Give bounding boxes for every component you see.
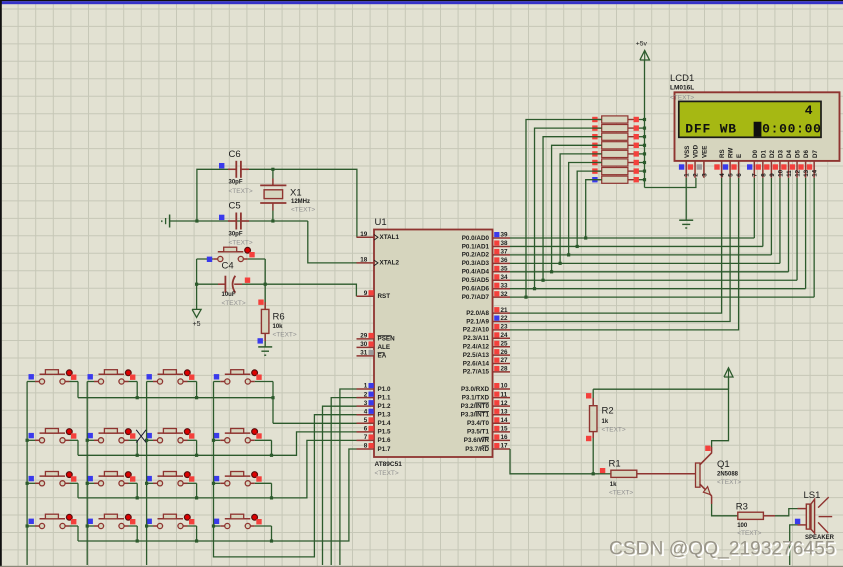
svg-text:<TEXT>: <TEXT>: [670, 95, 694, 102]
svg-text:D4: D4: [786, 150, 793, 158]
junction row wire 2 jog 3: [195, 454, 198, 457]
svg-text:17: 17: [501, 443, 509, 450]
svg-text:P1.3: P1.3: [378, 412, 391, 419]
pin 14 P3.4: [493, 422, 511, 424]
junction column 1 row 2: [26, 439, 29, 442]
capacitor C5: [228, 220, 236, 222]
state square pack 2 right: [634, 125, 639, 130]
op-amp U1 body (AT89C51 MCU): [374, 230, 493, 458]
svg-text:P2.5/A13: P2.5/A13: [463, 352, 490, 359]
push button keypad r2c2: [87, 439, 94, 441]
pin 4 P1.3: [357, 414, 375, 416]
svg-text:33: 33: [501, 282, 509, 289]
wire P1.1 column drop: [331, 398, 356, 565]
pin 7 P1.6: [357, 439, 375, 441]
wire LCD D3 drop: [779, 178, 781, 264]
wire keypad row 3 to P1.6: [78, 440, 357, 498]
svg-text:12: 12: [794, 169, 801, 176]
svg-text:9: 9: [769, 173, 776, 177]
svg-text:P2.0/A8: P2.0/A8: [466, 310, 489, 317]
wire keypad jog r4c1: [77, 526, 79, 541]
resistor pack element 2: [598, 127, 602, 129]
pin 17 P3.7: [493, 448, 511, 450]
ground symbol (below R6): [258, 346, 272, 348]
svg-text:C4: C4: [222, 261, 234, 272]
svg-text:37: 37: [501, 249, 509, 256]
svg-text:25: 25: [501, 340, 509, 347]
svg-text:4: 4: [805, 103, 814, 118]
wire P0.3 bus row: [510, 262, 780, 264]
svg-text:C6: C6: [229, 149, 241, 160]
push button keypad r2c1: [27, 439, 35, 441]
svg-text:30pF: 30pF: [229, 180, 243, 186]
LCD pin 3 VEE: [703, 161, 705, 178]
svg-text:P1.0: P1.0: [378, 386, 391, 393]
junction rail row 4: [643, 144, 646, 147]
svg-text:AT89C51: AT89C51: [375, 461, 403, 468]
resistor R2: [590, 406, 598, 432]
junction column 1 row 4: [26, 524, 29, 527]
svg-text:35: 35: [501, 266, 509, 273]
junction row wire 3 jog 4: [270, 496, 273, 499]
svg-text:12: 12: [501, 400, 509, 407]
resistor pack element 3: [598, 136, 602, 138]
svg-text:P3.5/T1: P3.5/T1: [467, 429, 490, 436]
svg-text:C5: C5: [229, 201, 241, 212]
svg-text:RST: RST: [378, 293, 391, 300]
svg-text:P3.3/INT1: P3.3/INT1: [461, 412, 490, 419]
state square pack 7 left: [592, 168, 597, 173]
LCD pin 14 D7: [813, 161, 815, 178]
wire P0.2 bus row: [510, 254, 771, 256]
svg-text:31: 31: [360, 350, 368, 357]
wire keypad jog r1c1: [77, 382, 79, 398]
state square pack 8 left: [592, 177, 597, 182]
svg-text:P3.4/T0: P3.4/T0: [467, 420, 490, 427]
wire keypad row 1 to P1.4: [78, 397, 273, 399]
wire +5v rail to LCD VDD: [645, 178, 696, 188]
svg-text:1k: 1k: [602, 419, 609, 425]
svg-text:P2.3/A11: P2.3/A11: [463, 335, 489, 342]
wire P2 to LCD E: [510, 178, 739, 330]
svg-text:26: 26: [501, 349, 509, 356]
svg-text:P0.5/AD5: P0.5/AD5: [462, 277, 490, 284]
state square R6 bottom: [258, 338, 263, 343]
junction +5/C4 left: [195, 283, 198, 286]
junction row wire 3 jog 3: [195, 496, 198, 499]
svg-text:EA: EA: [378, 353, 387, 360]
state square R2 bottom: [586, 436, 591, 441]
svg-text:14: 14: [812, 169, 819, 176]
svg-text:11: 11: [501, 391, 508, 398]
svg-text:9: 9: [364, 290, 368, 297]
wire X1 top pin: [272, 169, 274, 178]
push button keypad r4c2: [87, 525, 94, 527]
svg-text:3: 3: [701, 173, 708, 177]
svg-text:█0:00:00: █0:00:00: [754, 121, 822, 136]
junction P0.7 riser: [524, 296, 527, 299]
svg-text:P3.0/RXD: P3.0/RXD: [461, 386, 489, 393]
state square pack 5 left: [592, 151, 597, 156]
pin 13 P3.3: [493, 414, 511, 416]
wire keypad jog r2c3: [196, 440, 198, 455]
wire C5/ground net: [170, 220, 308, 222]
svg-text:30pF: 30pF: [229, 231, 243, 237]
wire P0.6 riser to resistor pack: [535, 128, 602, 289]
svg-text:39: 39: [501, 232, 509, 239]
svg-text:P2.6/A14: P2.6/A14: [463, 360, 490, 367]
svg-text:34: 34: [501, 274, 509, 281]
wire R6 to ground: [264, 341, 266, 347]
resistor pack element 8: [598, 179, 602, 181]
svg-text:38: 38: [501, 240, 509, 247]
svg-text:7: 7: [364, 434, 368, 441]
svg-text:P3.6/WR: P3.6/WR: [464, 437, 490, 444]
wire keypad row 2 to P1.5: [78, 432, 357, 455]
capacitor C4 (10uF): [197, 283, 218, 285]
svg-text:13: 13: [803, 169, 810, 176]
svg-text:1: 1: [684, 173, 691, 177]
junction column 4 row 3: [212, 482, 215, 485]
wire keypad jog r2c2: [136, 440, 138, 455]
junction rail row 8: [643, 178, 646, 181]
svg-text:P0.0/AD0: P0.0/AD0: [462, 235, 490, 242]
svg-text:28: 28: [501, 366, 509, 373]
pin 10 P3.0: [493, 388, 511, 390]
resistor pack element 4: [598, 144, 602, 146]
svg-text:D6: D6: [803, 150, 810, 158]
wire P2 to LCD RW: [510, 178, 730, 322]
pin 35 P0.4: [493, 271, 511, 273]
wire P3.7 to R1 row: [510, 449, 599, 474]
svg-text:LCD1: LCD1: [670, 73, 694, 84]
LCD pin 13 D6: [805, 161, 807, 178]
wire P0.6 bus row: [510, 288, 806, 290]
svg-text:<TEXT>: <TEXT>: [273, 332, 297, 339]
junction P0.4 riser: [550, 270, 553, 273]
svg-text:LS1: LS1: [804, 490, 821, 501]
pin 15 P3.5: [493, 431, 511, 433]
svg-text:R6: R6: [273, 312, 285, 323]
pin 39 P0.0: [493, 237, 511, 239]
wire keypad jog r1c2: [136, 382, 138, 398]
svg-text:27: 27: [501, 357, 509, 364]
wire into R1: [599, 473, 611, 475]
LCD pin 9 D2: [770, 161, 772, 178]
svg-text:11: 11: [786, 170, 793, 177]
pin 11 P3.1: [493, 397, 511, 399]
state square pack 4 right: [634, 143, 639, 148]
pin 36 P0.3: [493, 262, 511, 264]
svg-text:10: 10: [777, 169, 784, 176]
pin 32 P0.7: [493, 296, 511, 298]
wire LCD D2 drop: [770, 178, 772, 255]
wire keypad jog r3c2: [136, 483, 138, 498]
svg-text:VSS: VSS: [684, 146, 691, 158]
LCD pin 1 VSS: [685, 161, 687, 178]
pin 27 P2.6: [493, 363, 511, 365]
junction rail row 5: [643, 152, 646, 155]
pin 31 EA: [357, 355, 375, 357]
svg-text:<TEXT>: <TEXT>: [375, 470, 399, 477]
wire keypad column 1 vertical: [26, 382, 28, 566]
wire keypad column 4 vertical to P1.3: [214, 382, 357, 557]
wire R3 to LS1: [763, 515, 775, 517]
junction P0.6 riser: [533, 287, 536, 290]
pin 22 P2.1: [493, 321, 511, 323]
wire X1 bottom pin: [272, 211, 274, 222]
pin 16 P3.6: [493, 439, 511, 441]
svg-text:16: 16: [501, 434, 509, 441]
junction P0.2 riser: [567, 253, 570, 256]
junction row wire 4 jog 2: [136, 539, 139, 542]
svg-text:4: 4: [364, 408, 368, 415]
wire keypad jog r4c3: [196, 526, 198, 541]
svg-text:P2.7/A15: P2.7/A15: [463, 369, 490, 376]
wire keypad jog r1c3: [196, 382, 198, 398]
wire pack 7 to +5 rail: [633, 170, 645, 172]
svg-text:P1.7: P1.7: [378, 446, 391, 453]
wire LCD D7 drop: [813, 178, 815, 297]
state square pack 1 right: [634, 117, 639, 122]
svg-text:2: 2: [364, 391, 368, 398]
wire P0.4 bus row: [510, 271, 789, 273]
svg-text:<TEXT>: <TEXT>: [291, 207, 315, 214]
wire P0.0 riser to resistor pack: [586, 180, 602, 238]
pin 38 P0.1: [493, 245, 511, 247]
svg-text:P3.2/INT0: P3.2/INT0: [461, 403, 490, 410]
wire keypad jog r4c4: [271, 526, 273, 541]
pin 34 P0.5: [493, 279, 511, 281]
wire P0.5 riser to resistor pack: [543, 137, 602, 281]
junction rail row 7: [643, 170, 646, 173]
svg-text:4: 4: [719, 173, 726, 177]
state square pack 8 right: [634, 177, 639, 182]
state square R2 top: [586, 393, 591, 398]
svg-text:10uF: 10uF: [222, 292, 236, 298]
svg-text:P0.3/AD3: P0.3/AD3: [462, 260, 490, 267]
push button keypad r4c3: [147, 525, 153, 527]
junction row1 end: [271, 396, 274, 399]
junction row wire 4 jog 3: [195, 539, 198, 542]
push button keypad r3c3: [147, 482, 153, 484]
LCD pin 11 D4: [788, 161, 790, 178]
svg-text:P1.2: P1.2: [378, 403, 391, 410]
svg-text:P2.4/A12: P2.4/A12: [463, 344, 490, 351]
state square pack 3 right: [634, 134, 639, 139]
wire P0.2 riser to resistor pack: [569, 163, 602, 255]
wire C5 right to XTAL2: [308, 221, 357, 263]
wire P0.1 bus row: [510, 245, 763, 247]
wire P0.1 riser to resistor pack: [577, 171, 602, 246]
crystal X1: [264, 190, 283, 199]
speaker LS1: [798, 508, 807, 510]
svg-text:1k: 1k: [610, 482, 617, 488]
state square pack 6 left: [592, 160, 597, 165]
svg-text:D2: D2: [769, 150, 776, 158]
wire C6 left to ground corner: [197, 169, 236, 221]
junction X1 bottom: [271, 219, 274, 222]
wire P0.7 riser to resistor pack: [526, 120, 602, 298]
pin 18 XTAL2: [357, 262, 375, 264]
pin 26 P2.5: [493, 354, 511, 356]
svg-text:6: 6: [736, 173, 743, 177]
svg-text:7: 7: [752, 173, 759, 177]
svg-text:R3: R3: [736, 502, 748, 513]
mouse cursor X: [136, 430, 146, 443]
state square pack 5 right: [634, 151, 639, 156]
wire P0.5 bus row: [510, 279, 797, 281]
svg-text:32: 32: [501, 291, 509, 298]
svg-text:+5: +5: [193, 321, 201, 328]
svg-text:36: 36: [501, 257, 509, 264]
pin 28 P2.7: [493, 371, 511, 373]
svg-text:100: 100: [737, 523, 748, 529]
svg-text:5: 5: [364, 417, 368, 424]
wire +5v rail vertical: [644, 60, 646, 188]
svg-text:XTAL1: XTAL1: [380, 234, 400, 241]
state square Q1 collector: [705, 446, 710, 451]
state square R1 left: [600, 468, 605, 473]
power terminal (Q1 rail arrow): [724, 368, 733, 377]
junction C6/C5 ground tee: [195, 219, 198, 222]
svg-text:18: 18: [360, 257, 368, 264]
svg-text:<TEXT>: <TEXT>: [717, 479, 741, 486]
wire LCD D6 drop: [805, 178, 807, 289]
svg-text:24: 24: [501, 332, 509, 339]
pin 25 P2.4: [493, 346, 511, 348]
pin 5 P1.4: [357, 422, 375, 424]
pin 19 XTAL1: [357, 236, 375, 238]
LCD pin 12 D5: [796, 161, 798, 178]
pin 1 P1.0: [357, 388, 375, 390]
svg-text:P1.4: P1.4: [378, 420, 391, 427]
push button keypad r1c1: [27, 381, 35, 383]
junction row wire 1 jog 3: [195, 396, 198, 399]
pin 3 P1.2: [357, 405, 375, 407]
state square pack 4 left: [592, 143, 597, 148]
junction column 1 row 3: [26, 482, 29, 485]
wire reset button right vertical to R6: [264, 259, 266, 302]
svg-text:<TEXT>: <TEXT>: [222, 300, 246, 307]
LCD pin 6 E: [738, 161, 740, 178]
svg-text:1: 1: [364, 383, 368, 390]
svg-text:<TEXT>: <TEXT>: [229, 240, 253, 247]
wire keypad jog r2c4: [271, 440, 273, 455]
svg-text:X1: X1: [290, 187, 302, 198]
junction column 4 row 4: [212, 524, 215, 527]
wire LCD D4 drop: [788, 178, 790, 272]
state square pack 3 left: [592, 134, 597, 139]
wire pack 1 to +5 rail: [633, 119, 645, 121]
pin 23 P2.2: [493, 329, 511, 331]
junction column 2 row 2: [86, 439, 89, 442]
svg-text:Q1: Q1: [717, 459, 730, 470]
svg-text:D0: D0: [752, 150, 759, 158]
state square C5: [219, 215, 224, 220]
pin 12 P3.2: [493, 405, 511, 407]
svg-text:RS: RS: [719, 149, 726, 158]
svg-text:D3: D3: [778, 150, 785, 158]
wire P0.0 bus row: [510, 237, 754, 239]
pin 29 PSEN: [357, 338, 375, 340]
wire P1.2 column drop: [323, 406, 357, 565]
pin 9 RST: [357, 295, 375, 297]
svg-text:P3.1/TXD: P3.1/TXD: [462, 394, 490, 401]
wire LCD D1 drop: [762, 178, 764, 247]
svg-text:12MHz: 12MHz: [291, 199, 310, 205]
junction row wire 2 jog 4: [270, 454, 273, 457]
svg-text:2N5088: 2N5088: [717, 472, 739, 478]
state square pack 2 left: [592, 125, 597, 130]
wire P0.4 riser to resistor pack: [552, 145, 602, 271]
svg-text:P0.1/AD1: P0.1/AD1: [462, 243, 490, 250]
svg-text:30: 30: [360, 341, 368, 348]
LCD pin 2 VDD: [694, 161, 696, 178]
wire keypad jog r3c3: [196, 483, 198, 498]
resistor pack element 7: [598, 170, 602, 172]
LCD pin 8 D1: [762, 161, 764, 178]
wire pack 4 to +5 rail: [633, 144, 645, 146]
svg-text:P1.6: P1.6: [378, 437, 391, 444]
svg-text:10k: 10k: [273, 324, 284, 330]
wire +5 rail to Q1 collector: [593, 389, 728, 447]
svg-text:<TEXT>: <TEXT>: [609, 490, 633, 497]
svg-text:DFF WB: DFF WB: [685, 121, 737, 136]
junction P0.3 riser: [559, 262, 562, 265]
wire C6 right to XTAL1: [241, 169, 357, 237]
wire keypad jog r3c4: [271, 483, 273, 498]
svg-text:VDD: VDD: [693, 144, 700, 158]
push button keypad r1c2: [87, 381, 94, 383]
wire LCD D0 drop: [753, 178, 755, 238]
push button keypad r3c4: [214, 482, 221, 484]
svg-text:P0.6/AD6: P0.6/AD6: [462, 286, 490, 293]
LCD1 screen: [679, 101, 821, 137]
junction row wire 4 jog 4: [270, 539, 273, 542]
wire R2 bottom pin: [592, 438, 594, 474]
wire R2 top pin: [592, 398, 594, 406]
resistor pack element 6: [598, 162, 602, 164]
wire LCD VSS to ground: [685, 178, 687, 220]
wire P0.7 bus row: [510, 296, 814, 298]
state square C6: [219, 163, 224, 168]
svg-text:P2.1/A9: P2.1/A9: [466, 318, 489, 325]
ground symbol (LCD): [679, 219, 693, 221]
junction row wire 2 jog 2: [136, 454, 139, 457]
resistor pack element 5: [598, 153, 602, 155]
svg-text:PSEN: PSEN: [378, 336, 396, 343]
svg-text:5: 5: [728, 173, 735, 177]
pin 6 P1.5: [357, 431, 375, 433]
junction row wire 3 jog 2: [136, 496, 139, 499]
pin 8 P1.7: [357, 448, 375, 450]
svg-text:10: 10: [501, 383, 509, 390]
push button keypad r2c4: [214, 439, 221, 441]
svg-text:P3.7/RD: P3.7/RD: [465, 446, 489, 453]
LCD pin 10 D3: [779, 161, 781, 178]
svg-text:3: 3: [364, 400, 368, 407]
svg-text:P1.5: P1.5: [378, 429, 391, 436]
junction row wire 1 jog 2: [136, 396, 139, 399]
wire Q1 emitter to R3: [711, 496, 713, 504]
pin 30 ALE: [357, 346, 375, 348]
state square pack 7 right: [634, 168, 639, 173]
junction X1 top: [271, 168, 274, 171]
push button keypad r3c2: [87, 482, 94, 484]
svg-text:LM016L: LM016L: [670, 85, 694, 92]
wire P1.0 column drop: [340, 389, 357, 565]
